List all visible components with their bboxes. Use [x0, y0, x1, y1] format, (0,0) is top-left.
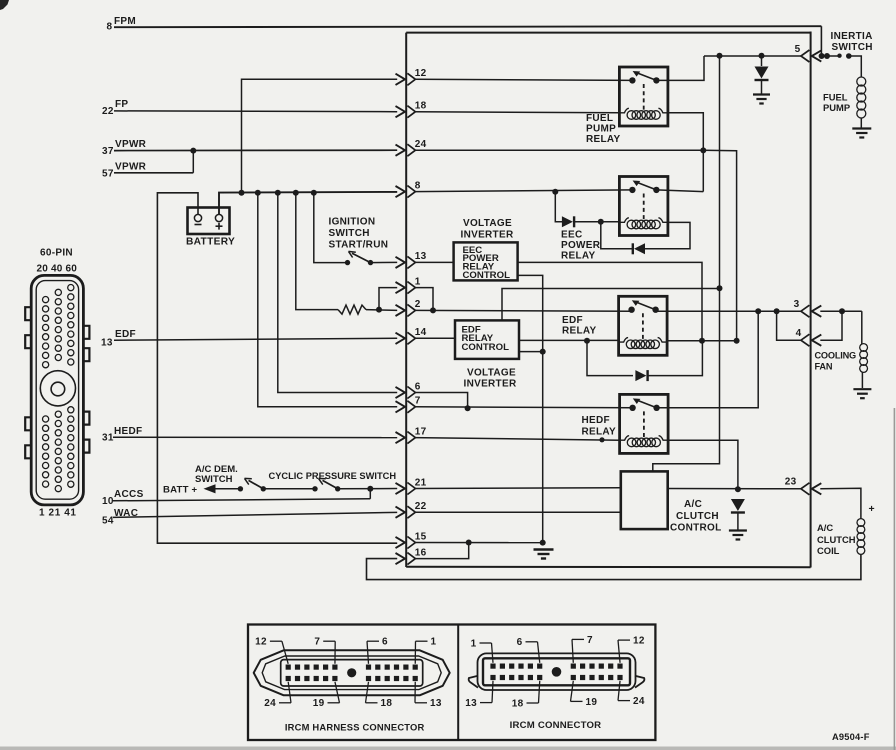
svg-text:FPM: FPM [114, 16, 136, 27]
cyclic pressure switch: blade arrowhead [319, 478, 326, 484]
wire resistor branch down [296, 193, 338, 310]
relay K3 EDF RELAY: switch blade [636, 302, 656, 310]
J1 label 7 leader [323, 640, 335, 642]
svg-text:+: + [869, 503, 875, 515]
wire pin5 module side [704, 55, 801, 57]
svg-text:INERTIA: INERTIA [831, 31, 873, 42]
svg-text:SWITCH: SWITCH [329, 228, 370, 239]
svg-text:6: 6 [415, 381, 421, 392]
wire K2 clamp loop left leg [601, 222, 633, 249]
diode D5 (A/C clamp) [731, 499, 745, 511]
svg-text:CONTROL: CONTROL [670, 522, 722, 533]
wire pin6 jumper to pin7 [415, 393, 468, 409]
IRCM module box: left edge (pin bus) [405, 33, 407, 567]
connector pin 8 (left bus): plug arrow [396, 186, 406, 197]
connector pin 16 (left bus): socket chevron [407, 553, 415, 565]
connector pin 4 (right bus): plug arrow [812, 335, 822, 346]
wire K1 switch out, up to pin5 net [656, 56, 704, 80]
relay K2 EEC POWER RELAY: switch left contact [629, 187, 635, 193]
junction batt+ / pin6 branch [275, 190, 281, 196]
scan artifact bottom edge shading [0, 747, 896, 750]
junction fan feed / pin4 loop [839, 308, 845, 314]
wire K2 switch out, up to pin24 rail [656, 190, 703, 192]
svg-text:60-PIN: 60-PIN [40, 248, 73, 259]
connector pin 5 (right bus): plug arrow [812, 50, 822, 61]
svg-text:CONTROL: CONTROL [462, 342, 510, 353]
svg-text:4: 4 [796, 328, 802, 339]
connector pin 1 (left bus): socket chevron [407, 282, 415, 294]
BATT feed arrowhead [204, 484, 216, 493]
connector pin 22 (left bus): plug arrow [396, 507, 406, 518]
junction batt+ / ignition branch [311, 190, 317, 196]
junction batt+ / resistor branch [293, 190, 299, 196]
svg-text:CLUTCH: CLUTCH [676, 511, 719, 522]
connector pin 3 (right bus): socket chevron [801, 305, 810, 317]
svg-text:1 21 41: 1 21 41 [39, 508, 77, 519]
junction ACCS / pin 21 line [367, 486, 373, 492]
J2 label 6 leader [526, 641, 538, 643]
ignition switch: right contact [368, 260, 373, 265]
svg-text:22: 22 [415, 501, 427, 512]
connector pin 22 (left bus): socket chevron [407, 506, 415, 518]
relay K2 EEC POWER RELAY: armature dashed link [643, 194, 645, 220]
svg-text:BATT +: BATT + [163, 485, 198, 496]
connector pin 23 (right bus): socket chevron [801, 483, 810, 495]
junction K3 coil / VPWR rail [734, 338, 740, 344]
J2 label 18 leader [527, 702, 539, 704]
diode D1 (inertia net clamp) [755, 67, 769, 79]
wire pin5 harness side to inertia switch [820, 55, 839, 57]
wire pin15 module side [415, 542, 543, 544]
60-pin connector: inner outline [36, 281, 78, 500]
svg-text:A9504-F: A9504-F [832, 732, 870, 742]
svg-text:CYCLIC PRESSURE SWITCH: CYCLIC PRESSURE SWITCH [269, 471, 397, 481]
connector pin 5 (right bus): socket chevron [801, 50, 810, 62]
svg-text:57: 57 [102, 169, 114, 180]
wire pin17 to K4 coil [415, 438, 621, 441]
A/C DEM switch: left contact [238, 486, 243, 491]
battery B1: plus sign [216, 225, 223, 227]
relay K3 EDF RELAY: blade arrowhead [632, 300, 640, 306]
fuel pump motor coil L1 [857, 77, 866, 86]
svg-text:VPWR: VPWR [115, 162, 147, 173]
junction FPM drop [819, 53, 825, 59]
diode D4 (EDF coil clamp) [635, 370, 646, 381]
relay K4 HEDF RELAY: box [620, 394, 669, 453]
wire K2 clamp loop right leg [645, 222, 690, 248]
svg-text:1: 1 [415, 276, 421, 287]
junction pin5 line / A-C riser [717, 53, 723, 59]
wire FPM drop to inertia line [820, 26, 822, 56]
relay K4 HEDF RELAY: armature dashed link [643, 411, 645, 437]
IRCM connector J2: left mounting wing [469, 676, 478, 688]
connector pin 6 (left bus): socket chevron [407, 387, 415, 399]
relay K3 EDF RELAY: box [619, 296, 668, 355]
junction batt+ / pin7 branch [255, 190, 261, 196]
svg-text:23: 23 [785, 477, 797, 488]
junction ground rail / pin15 line [540, 540, 546, 546]
J1 label 6 leader [367, 640, 379, 642]
junction EDF coil clamp tap [584, 338, 590, 344]
A/C DEM switch: blade arrowhead [245, 478, 252, 484]
relay K1 FUEL PUMP RELAY: coil [620, 108, 629, 113]
svg-text:VPWR: VPWR [115, 139, 147, 150]
wire U2 top to inertia net [502, 289, 720, 321]
A/C CLUTCH CONTROL box U3 [621, 471, 668, 529]
connector pin 18 (left bus): plug arrow [396, 106, 406, 117]
svg-text:COOLING: COOLING [815, 350, 857, 360]
IRCM harness connector J1: pin squares top row [286, 665, 291, 670]
J2 label 12 leader [618, 639, 630, 641]
connector pin 4 (right bus): socket chevron [801, 334, 810, 346]
relay K2 EEC POWER RELAY: box [619, 177, 668, 236]
wire fuel pump to ground [860, 118, 862, 128]
relay K1 FUEL PUMP RELAY: box [619, 67, 668, 126]
ignition switch: left contact [345, 260, 350, 265]
svg-text:A/C: A/C [817, 522, 833, 533]
connector pin 14 (left bus): socket chevron [407, 332, 415, 344]
J2 label 24 leader [618, 700, 630, 702]
svg-text:IGNITION: IGNITION [329, 217, 376, 228]
connector pin 15 (left bus): plug arrow [396, 537, 406, 548]
wire ACCS riser to pin21 line [369, 489, 371, 499]
connector pin 21 (left bus): socket chevron [407, 483, 415, 495]
wire K3 clamp loop right leg [648, 341, 703, 376]
junction K4 coil entry [599, 437, 604, 442]
svg-text:31: 31 [102, 433, 114, 444]
connector pin 14 (left bus): plug arrow [396, 333, 406, 344]
svg-text:FUEL: FUEL [823, 92, 848, 103]
svg-text:7: 7 [415, 396, 421, 407]
IRCM harness connector J1: shell outer [254, 650, 450, 695]
IRCM harness connector J1: pin squares bottom row [286, 676, 291, 681]
wire pin18 to K1 coil [415, 112, 621, 113]
J1 label 13 leader [415, 702, 427, 704]
wire VPWR 37 to pin 24 [114, 149, 397, 151]
wire pin12 to K1 switch [415, 79, 633, 80]
connector pin 7 (left bus): socket chevron [407, 401, 415, 413]
wire fan to ground [861, 372, 863, 388]
connector pin 16 (left bus): plug arrow [396, 553, 406, 564]
relay K1 FUEL PUMP RELAY: switch blade [636, 73, 656, 81]
J2 label 7 leader [572, 638, 584, 640]
wire battery positive feed to pin 8 [219, 192, 397, 215]
connector pin 15 (left bus): socket chevron [407, 537, 415, 549]
cyclic pressure switch: right contact [335, 486, 340, 491]
ignition switch: blade [352, 253, 371, 262]
svg-text:2: 2 [415, 299, 421, 310]
connector detail panel: divider [457, 625, 459, 741]
junction pin6/pin7 [465, 405, 471, 411]
svg-text:6: 6 [382, 637, 388, 648]
svg-text:RELAY: RELAY [561, 250, 596, 261]
cyclic pressure switch: blade [323, 480, 338, 488]
IRCM module box: top edge [406, 32, 810, 34]
junction pin15/16 [466, 540, 472, 546]
svg-text:13: 13 [430, 698, 442, 709]
60-pin connector: right side tabs [83, 326, 89, 339]
svg-text:VOLTAGE: VOLTAGE [463, 218, 512, 229]
wire FP to pin 18 [114, 110, 397, 113]
junction pin8 line / diode branch [552, 189, 558, 195]
wire K3 switch out to cooling fan pin3 [656, 310, 801, 312]
wire K4 switch out, riser to pin3 line [657, 311, 759, 408]
svg-text:24: 24 [633, 696, 645, 707]
wire pin21 to U3 [415, 487, 621, 490]
IRCM connector J2: shell outer [478, 653, 636, 690]
connector pin 17 (left bus): plug arrow [396, 432, 406, 443]
svg-text:5: 5 [795, 44, 801, 55]
battery B1: positive terminal circle [215, 214, 222, 221]
J1 label 18 leader [366, 702, 378, 704]
junction pin3 / pin4 jumper [774, 308, 780, 314]
junction K2 coil clamp tap [598, 219, 604, 225]
wire ACCS [113, 499, 370, 501]
svg-text:20 40 60: 20 40 60 [37, 264, 78, 275]
svg-text:13: 13 [415, 251, 427, 262]
svg-text:FAN: FAN [815, 362, 833, 372]
60-pin connector: center index hole inner [51, 382, 65, 396]
wire pin3 harness side [820, 310, 862, 312]
IRCM module box: right edge (pin bus) [810, 32, 812, 568]
resistor R1 [338, 305, 366, 314]
relay K2 EEC POWER RELAY: coil [620, 218, 629, 223]
svg-text:FP: FP [115, 99, 128, 110]
relay K3 EDF RELAY: coil [620, 338, 629, 343]
svg-text:8: 8 [415, 180, 421, 191]
svg-text:INVERTER: INVERTER [461, 229, 514, 240]
svg-text:18: 18 [381, 698, 393, 709]
IRCM harness connector J1: pin field [281, 660, 423, 686]
wire K3 coil right [667, 340, 737, 342]
wire pin7 to K4 switch [415, 407, 633, 408]
junction K3 coil / U1 drop [699, 338, 705, 344]
svg-text:19: 19 [586, 697, 598, 708]
IRCM connector J2: pin squares top row [490, 664, 495, 669]
diode D2 (EEC coil feed) [562, 216, 573, 227]
wire U2 out to EDF relay coil [519, 339, 619, 341]
relay K2 EEC POWER RELAY: switch right contact [653, 187, 659, 193]
relay K4 HEDF RELAY: coil [621, 436, 630, 441]
wire HEDF to pin 17 [113, 436, 397, 438]
IRCM harness connector J1: shell inner [262, 656, 441, 690]
J2 label 19 leader [571, 700, 583, 702]
connector pin 12 (left bus): socket chevron [407, 73, 415, 85]
svg-text:RELAY: RELAY [586, 134, 621, 145]
J2 label 1 leader [480, 642, 492, 644]
svg-text:7: 7 [314, 637, 320, 648]
connector pin 21 (left bus): plug arrow [396, 483, 406, 494]
svg-text:EDF: EDF [115, 329, 136, 340]
relay K3 EDF RELAY: armature dashed link [642, 313, 644, 339]
wire inertia switch to fuel pump [849, 56, 862, 78]
connector pin 23 (right bus): plug arrow [812, 483, 822, 494]
relay K4 HEDF RELAY: switch left contact [629, 405, 635, 411]
svg-text:7: 7 [587, 635, 593, 646]
connector pin 24 (left bus): plug arrow [396, 145, 406, 156]
scan artifact top-left corner [0, 0, 9, 10]
60-pin connector: left side tabs [25, 307, 31, 320]
cooling fan motor coil L2 [860, 344, 868, 352]
svg-text:SWITCH: SWITCH [195, 474, 233, 485]
EDF RELAY CONTROL box U2 [455, 320, 519, 359]
wire ignition switch feed [314, 193, 348, 263]
svg-text:37: 37 [102, 146, 114, 157]
wire pin14 to U2 [415, 337, 455, 339]
svg-text:21: 21 [415, 477, 427, 488]
connector pin 3 (right bus): plug arrow [812, 306, 822, 317]
J2 label 13 leader [480, 702, 492, 704]
battery B1: negative terminal circle [194, 214, 201, 221]
svg-text:SWITCH: SWITCH [832, 42, 873, 53]
EEC POWER RELAY CONTROL box U1 [454, 242, 518, 280]
svg-text:3: 3 [794, 299, 800, 310]
svg-text:13: 13 [101, 338, 113, 349]
connector pin 13 (left bus): plug arrow [396, 257, 406, 268]
wire pin24 VPWR rail [415, 150, 737, 341]
wire resistor to pin 2 [366, 309, 397, 312]
wire pin4 jumper [777, 311, 801, 340]
IRCM connector J2: pin squares bottom row [490, 675, 495, 680]
wire U2 lower out to ground rail [519, 351, 543, 353]
junction pin1/pin2 [430, 307, 436, 313]
wire FPM horizontal to top right [114, 26, 821, 27]
relay K4 HEDF RELAY: switch right contact [653, 405, 659, 411]
svg-text:12: 12 [415, 68, 427, 79]
wire pin 12 harness branch [242, 79, 398, 192]
svg-text:12: 12 [255, 637, 267, 648]
relay K4 HEDF RELAY: blade arrowhead [633, 398, 641, 404]
wire EDF to pin 14 [114, 338, 397, 340]
IRCM connector J2: pin field [483, 658, 630, 685]
connector pin 12 (left bus): plug arrow [396, 74, 406, 85]
wire D1 branch [761, 56, 763, 66]
connector pin 17 (left bus): socket chevron [407, 432, 415, 444]
wire D5 to ground [737, 514, 739, 530]
svg-text:19: 19 [313, 698, 325, 709]
J1 label 1 leader [416, 640, 428, 642]
svg-text:HEDF: HEDF [114, 426, 142, 437]
relay K4 HEDF RELAY: switch blade [637, 400, 657, 408]
IRCM connector J2: index hole [552, 667, 562, 677]
wire BATT to A/C DEM switch [214, 488, 240, 490]
relay K2 EEC POWER RELAY: switch blade [636, 182, 656, 190]
diode D3 (EEC coil clamp) [634, 243, 645, 254]
wire A/C DEM to cyclic pressure switch [263, 488, 315, 490]
ground G5 (module logic ground) [534, 548, 554, 550]
wire pin8 to K2 switch [415, 190, 633, 192]
wire VPWR 57 [114, 172, 193, 174]
junction pin24 / K1-EEC riser [700, 147, 706, 153]
60-pin connector: pin holes grid [43, 297, 49, 303]
svg-text:6: 6 [517, 637, 523, 648]
svg-text:BATTERY: BATTERY [186, 237, 235, 248]
IRCM module box: bottom edge [406, 566, 810, 568]
junction resistor / pin1 loop [376, 307, 382, 313]
svg-text:RELAY: RELAY [582, 427, 617, 438]
J1 label 24 leader [279, 702, 291, 704]
svg-text:22: 22 [102, 106, 114, 117]
connector pin 18 (left bus): socket chevron [407, 106, 415, 118]
junction batt+ / pin12 branch [239, 190, 245, 196]
connector pin 2 (left bus): socket chevron [407, 304, 415, 316]
svg-text:EEC: EEC [561, 230, 582, 241]
wire inertia net riser down to A/C clutch control [653, 56, 720, 472]
svg-text:14: 14 [415, 327, 427, 338]
svg-text:13: 13 [465, 698, 477, 709]
relay K1 FUEL PUMP RELAY: switch right contact [653, 77, 659, 83]
svg-text:1: 1 [471, 638, 477, 649]
J1 label 12 leader [270, 640, 282, 642]
wire K4 coil right to VPWR rail [667, 440, 738, 489]
svg-text:A/C: A/C [684, 499, 702, 510]
wire WAC to pin 22 [113, 512, 397, 517]
connector pin 7 (left bus): plug arrow [396, 401, 406, 412]
wire K1 coil right to EEC switch net [668, 113, 703, 192]
connector pin 6 (left bus): plug arrow [396, 387, 406, 398]
svg-text:START/RUN: START/RUN [329, 240, 389, 251]
scan artifact right edge line [894, 408, 896, 750]
svg-text:INVERTER: INVERTER [464, 379, 517, 390]
ground G2 (cooling fan) [853, 388, 871, 390]
junction pin5 line / clamp diode D1 [759, 53, 765, 59]
svg-text:16: 16 [415, 547, 427, 558]
ignition switch: blade arrowhead [349, 251, 356, 257]
svg-text:IRCM CONNECTOR: IRCM CONNECTOR [510, 720, 602, 731]
wire U1 lower out to ground rail [518, 275, 543, 542]
A/C DEM switch: right contact [261, 486, 266, 491]
svg-text:PUMP: PUMP [823, 102, 850, 113]
junction VPWR 37/57 [190, 148, 196, 154]
J1 label 19 leader [328, 702, 340, 704]
svg-text:EDF: EDF [562, 315, 583, 326]
svg-text:POWER: POWER [561, 240, 601, 251]
svg-text:18: 18 [415, 101, 427, 112]
wire VPWR 57 riser to VPWR 37 [192, 151, 194, 173]
IRCM connector J2: right mounting wing [635, 676, 644, 688]
junction pin23 line / clamp diode D5 [735, 486, 741, 492]
svg-text:RELAY: RELAY [562, 326, 597, 337]
wire fan drop [861, 311, 863, 344]
relay K1 FUEL PUMP RELAY: switch left contact [629, 77, 635, 83]
relay K1 FUEL PUMP RELAY: blade arrowhead [633, 71, 641, 77]
wire U1 out to EDF coil right drop [518, 262, 702, 340]
ground G4 [729, 529, 747, 531]
connector pin 24 (left bus): socket chevron [407, 144, 415, 156]
wire pin23 harness to A/C clutch coil [820, 488, 861, 519]
wire D2 to K2 coil [574, 221, 620, 223]
relay K1 FUEL PUMP RELAY: armature dashed link [643, 84, 645, 110]
wire diode branch down [555, 192, 562, 222]
svg-text:CONTROL: CONTROL [463, 270, 511, 281]
inertia switch: contact small [837, 54, 841, 58]
wire pin 6 harness branch [278, 193, 397, 393]
junction inertia contact a [824, 53, 830, 59]
wire pin 1 harness loop [379, 288, 397, 310]
svg-text:CLUTCH: CLUTCH [817, 534, 856, 545]
wire pin13 to U1 [415, 261, 454, 263]
wire battery negative lead [157, 193, 397, 543]
svg-text:VOLTAGE: VOLTAGE [467, 367, 516, 378]
connector detail panel: outer box [248, 625, 655, 741]
IRCM harness connector J1: index hole [347, 668, 356, 677]
wire pin1 jumper to pin2 [415, 288, 433, 311]
inertia switch: contact b [846, 53, 852, 59]
wire ignition switch to pin 13 [371, 261, 398, 263]
connector pin 2 (left bus): plug arrow [396, 305, 406, 316]
svg-text:PUMP: PUMP [586, 123, 616, 134]
wire pin2 to K3 switch [415, 309, 632, 312]
